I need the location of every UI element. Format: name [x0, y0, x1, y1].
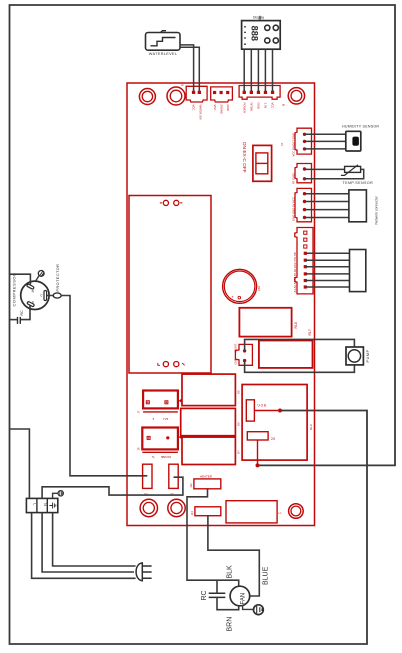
driver box K7: [182, 437, 235, 464]
wire J10 p8: [305, 280, 349, 282]
fan motor: [230, 586, 250, 606]
relay K2 electromagnetic: [137, 428, 178, 460]
connector J4 humidity 3pin: [280, 128, 312, 156]
wire J10 p7: [305, 273, 349, 275]
svg-text:J12: J12: [189, 483, 193, 488]
node junction dot RL contact out 1: [278, 409, 282, 413]
svg-text:J9: J9: [137, 447, 141, 450]
ground fan: [243, 605, 264, 615]
wire network 3: [305, 209, 349, 211]
wire humidity 2: [305, 140, 346, 142]
svg-text:HEATER: HEATER: [200, 475, 213, 479]
wire J12 to fan BLK: [187, 489, 239, 587]
svg-text:HUMIDITY SENSOR: HUMIDITY SENSOR: [342, 124, 379, 128]
svg-text:71: 71: [152, 455, 156, 459]
wire N to fuse F1: [42, 477, 183, 498]
capacitor RC fan: [201, 580, 239, 610]
wire pump bottom: [245, 361, 355, 373]
relay K1 electromagnetic: [137, 391, 178, 421]
terminal block L N G: [26, 498, 57, 512]
wire J10 p9: [305, 286, 349, 288]
plug: [136, 563, 152, 581]
connector J6 temp 2pin: [292, 164, 312, 185]
humidity sensor: [342, 124, 379, 151]
mounting hole top-left: [139, 89, 155, 105]
relay RL8: [239, 308, 298, 337]
svg-text:VCC: VCC: [213, 105, 217, 111]
wire network 4: [305, 217, 349, 219]
svg-text:RT GND: RT GND: [292, 173, 296, 184]
svg-text:UOB: UOB: [258, 403, 267, 407]
connector J8 pump 2pin: [234, 343, 253, 365]
svg-text:ON EX-C OFF: ON EX-C OFF: [241, 142, 247, 173]
wire L to line: [10, 429, 30, 498]
svg-text:Display: Display: [253, 16, 264, 20]
mounting hole top-left2: [167, 87, 185, 105]
connector J1 waterlevel 2pin: [181, 83, 207, 120]
wire G to earth: [53, 493, 58, 498]
svg-text:WTB/K: WTB/K: [250, 103, 254, 112]
relay RL7: [259, 329, 313, 368]
wire N to plug: [42, 513, 134, 572]
svg-text:K7: K7: [237, 450, 241, 454]
wire humidity 1: [305, 133, 346, 135]
svg-text:GND: GND: [226, 105, 230, 111]
svg-text:S: S: [32, 300, 34, 304]
wire J10 p4: [305, 252, 349, 254]
fuse F1: [169, 464, 178, 496]
svg-text:GND GND 5V VCC: GND GND 5V VCC: [292, 197, 296, 221]
wire display leg4: [264, 49, 266, 91]
thermistor RT: [341, 165, 373, 185]
svg-text:U-: U-: [279, 511, 282, 515]
wire compressor S to capacitor: [20, 306, 30, 320]
driver box K6: [181, 408, 236, 435]
wire J10 p6: [305, 266, 349, 268]
svg-text:888: 888: [249, 26, 259, 41]
svg-text:RC: RC: [20, 310, 24, 316]
svg-text:FAN: FAN: [240, 593, 246, 605]
wire L to plug: [32, 513, 136, 579]
node junction dot RL contact out 2: [256, 463, 260, 467]
connector J10 9pin: [293, 228, 313, 294]
svg-text:BRN: BRN: [227, 617, 234, 632]
transformer T1: [129, 196, 211, 374]
svg-text:RL8: RL8: [294, 322, 298, 328]
wire humidity 3: [305, 148, 346, 150]
svg-text:VCC PHOUT GND: VCC PHOUT GND: [292, 133, 296, 156]
wire pump top: [245, 339, 355, 351]
svg-text:RC: RC: [201, 590, 208, 600]
svg-text:GND: GND: [257, 103, 261, 109]
ground earth terminal: [58, 491, 63, 496]
ground compressor: [36, 271, 45, 281]
svg-text:J14: J14: [190, 511, 194, 516]
svg-text:2O: 2O: [271, 437, 276, 441]
svg-text:BLUE: BLUE: [263, 566, 270, 585]
svg-text:SWING: SWING: [219, 105, 223, 114]
wire J14 to fan BLUE: [208, 516, 259, 596]
svg-text:BLK: BLK: [227, 565, 234, 579]
network connector box: [349, 190, 379, 225]
wire temp loop: [305, 169, 364, 178]
svg-text:PROTECTOR: PROTECTOR: [56, 264, 60, 292]
mounting hole bottom-right: [289, 504, 304, 519]
svg-text:3.3V: 3.3V: [264, 103, 268, 109]
wire J10 p5: [305, 259, 349, 261]
svg-text:J7: J7: [137, 410, 141, 413]
wire waterlevel 1: [180, 45, 194, 91]
svg-text:Network connector: Network connector: [375, 195, 379, 224]
svg-text:N: N: [43, 503, 48, 506]
keypad connector box: [350, 250, 366, 292]
mounting hole bottom-left: [140, 499, 157, 516]
wire protector to fuse F2: [61, 296, 147, 476]
display module: [242, 16, 281, 50]
svg-text:PUMP: PUMP: [366, 349, 370, 362]
svg-text:WATERLEVEL: WATERLEVEL: [149, 52, 178, 56]
capacitor RC compressor run: [18, 310, 24, 324]
connector J5 display 5pin: [239, 86, 285, 114]
mounting hole bottom-left2: [168, 499, 185, 516]
wire capacitor to line: [10, 319, 18, 321]
compressor: [12, 273, 50, 310]
capacitor big electrolytic: [223, 269, 261, 303]
svg-text:LB1: LB1: [257, 285, 261, 291]
svg-text:WATER.SW: WATER.SW: [198, 105, 202, 120]
svg-text:K5: K5: [237, 390, 241, 394]
connector J14 fan: [190, 507, 221, 516]
wire display leg2: [250, 49, 252, 91]
connector J12 heater: [189, 475, 221, 489]
svg-text:SHOAT: SHOAT: [234, 343, 238, 352]
svg-text:TEMP.SENSOR: TEMP.SENSOR: [343, 181, 374, 185]
pin arrow relay2: [179, 435, 182, 440]
svg-text:TV5: TV5: [163, 417, 169, 421]
wire G to plug: [53, 513, 136, 566]
wire display leg1: [243, 49, 245, 91]
pin arrow relay1: [179, 398, 182, 403]
wire display leg5: [272, 49, 274, 91]
fuse F2: [143, 464, 152, 496]
svg-text:RL9: RL9: [309, 424, 313, 430]
wire compressor R to line: [10, 274, 31, 284]
svg-text:COMPRESSOR: COMPRESSOR: [12, 273, 17, 307]
pump: [346, 347, 370, 365]
wire display leg3: [257, 49, 259, 91]
svg-text:VCC: VCC: [191, 105, 195, 111]
svg-text:RL7: RL7: [308, 329, 312, 335]
wire waterlevel 2: [180, 47, 199, 91]
svg-text:J4: J4: [280, 143, 284, 146]
switch ON EX-C OFF: [241, 142, 271, 181]
relay contact box RL9: [242, 385, 313, 465]
svg-text:K6: K6: [237, 422, 241, 426]
svg-text:POWER: POWER: [242, 103, 246, 114]
connector J2 swing 3pin: [211, 87, 233, 114]
svg-text:VCC: VCC: [271, 103, 275, 109]
box bottom-right display conn: [226, 501, 282, 523]
wire network 1: [305, 193, 349, 195]
svg-text:A1 A2 A3 A4 A5 A6 VCC PW SB: A1 A2 A3 A4 A5 A6 VCC PW SB: [293, 252, 297, 292]
waterlevel switch: [146, 31, 181, 56]
PCB board outline: [127, 83, 315, 526]
connector J3 network 4pin: [292, 188, 312, 221]
svg-text:5BK003: 5BK003: [161, 455, 171, 459]
protector overload: [47, 264, 62, 298]
svg-text:+: +: [231, 295, 234, 300]
wire network 2: [305, 201, 349, 203]
svg-text:GND: GND: [234, 359, 238, 365]
driver box K5: [182, 374, 235, 406]
mounting hole top-right: [288, 88, 304, 104]
